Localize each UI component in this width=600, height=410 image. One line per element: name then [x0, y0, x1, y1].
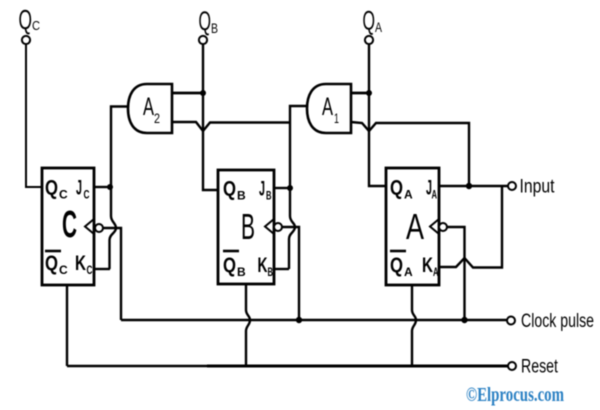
svg-text:B: B: [241, 206, 255, 247]
junction dot clock / flip-flop B: [296, 317, 302, 323]
junction dot J_B: [287, 185, 293, 191]
node Q_C terminal: [19, 4, 41, 44]
svg-text:1: 1: [334, 110, 339, 126]
svg-text:B: B: [268, 265, 274, 279]
wire J_B pin: [274, 187, 290, 189]
wire Q_B vertical to flip-flop B: [203, 44, 218, 191]
svg-text:C: C: [59, 188, 68, 202]
svg-text:2: 2: [154, 110, 160, 126]
wire clock pulse line: [121, 319, 508, 322]
wire flip-flop C clock to clock line: [103, 228, 121, 320]
svg-text:A: A: [404, 188, 413, 202]
svg-text:A: A: [143, 93, 154, 121]
svg-text:A: A: [432, 188, 438, 202]
node Clock pulse terminal: [507, 311, 594, 332]
junction dot clock / flip-flop A: [461, 317, 467, 323]
svg-text:A: A: [322, 93, 333, 121]
svg-text:K: K: [422, 254, 433, 277]
svg-text:J: J: [76, 177, 82, 200]
wire A1 output down to J_B/K_B: [289, 106, 308, 269]
wire A1 top input to Q_A line: [351, 92, 369, 95]
flip-flop B: [218, 170, 282, 284]
wire A2 top input to Q_B line: [172, 92, 203, 95]
svg-text:K: K: [258, 254, 268, 277]
wire reset line: [67, 365, 207, 367]
wire K_B pin: [274, 268, 289, 270]
wire A2 output down to J_C/K_C: [110, 107, 130, 270]
svg-text:Q: Q: [45, 177, 58, 200]
wire flip-flop A clock to clock line: [447, 227, 465, 320]
svg-text:C: C: [59, 263, 68, 277]
wire flip-flop B clock to clock line: [282, 227, 299, 320]
svg-text:A: A: [433, 265, 439, 279]
wire flip-flop C clear to reset line: [66, 285, 68, 366]
junction dot Q_B / A2 input: [200, 90, 206, 96]
svg-text:C: C: [32, 18, 40, 33]
svg-text:Q: Q: [199, 6, 212, 36]
svg-text:Q: Q: [363, 6, 376, 36]
svg-text:Q: Q: [45, 252, 58, 275]
wire K_A with hop over clock wire, up to Input net: [439, 186, 502, 268]
clock triangle flip-flop A: [430, 219, 439, 234]
wire A2 bottom input with hop over Q_B line: [172, 122, 290, 131]
svg-text:Q: Q: [390, 177, 403, 200]
svg-text:Clock pulse: Clock pulse: [521, 311, 594, 332]
node Q_A terminal: [363, 6, 383, 45]
svg-text:B: B: [237, 189, 246, 203]
wire Q_A vertical to flip-flop A: [369, 44, 386, 187]
svg-text:Reset: Reset: [521, 357, 559, 378]
clock triangle flip-flop B: [265, 219, 274, 234]
svg-text:A: A: [375, 19, 382, 35]
node Q_B terminal: [199, 6, 219, 44]
svg-text:A: A: [404, 265, 413, 279]
junction dot Input / A1 lower input: [466, 183, 472, 189]
wire flip-flop A clear to reset line with hop over clock line: [412, 285, 416, 366]
wire K_C pin: [94, 268, 110, 270]
svg-text:A: A: [406, 206, 424, 247]
svg-text:B: B: [266, 189, 272, 203]
svg-text:C: C: [84, 188, 90, 202]
wire J_A to Input terminal: [439, 185, 509, 187]
flip-flop A: [386, 168, 447, 285]
clock triangle flip-flop C: [85, 219, 94, 234]
svg-text:C: C: [62, 204, 77, 246]
svg-text:B: B: [211, 20, 218, 36]
wire Q_C vertical to flip-flop C: [26, 44, 42, 188]
junction dot Q_A / A1 input: [366, 90, 372, 96]
AND gate A2: [128, 84, 172, 133]
node Input terminal: [508, 177, 555, 198]
flip-flop C: [42, 168, 103, 285]
svg-text:Input: Input: [520, 177, 556, 198]
svg-text:©Elprocus.com: ©Elprocus.com: [466, 385, 564, 406]
svg-text:Q: Q: [223, 178, 236, 201]
svg-text:J: J: [259, 178, 265, 201]
svg-text:C: C: [87, 263, 93, 277]
svg-text:Q: Q: [19, 4, 33, 35]
AND gate A1: [307, 84, 351, 133]
wire A1 bottom input with hop over Q_A line, to Input net: [351, 122, 469, 186]
svg-text:K: K: [75, 252, 86, 275]
svg-text:Q: Q: [223, 254, 236, 277]
wire flip-flop B clear to reset line with hop over clock line: [246, 284, 250, 366]
node Reset terminal: [508, 357, 559, 378]
wire J_C pin: [94, 186, 110, 188]
svg-text:B: B: [237, 265, 246, 279]
junction dot J_C: [107, 184, 113, 190]
svg-text:Q: Q: [390, 254, 403, 277]
